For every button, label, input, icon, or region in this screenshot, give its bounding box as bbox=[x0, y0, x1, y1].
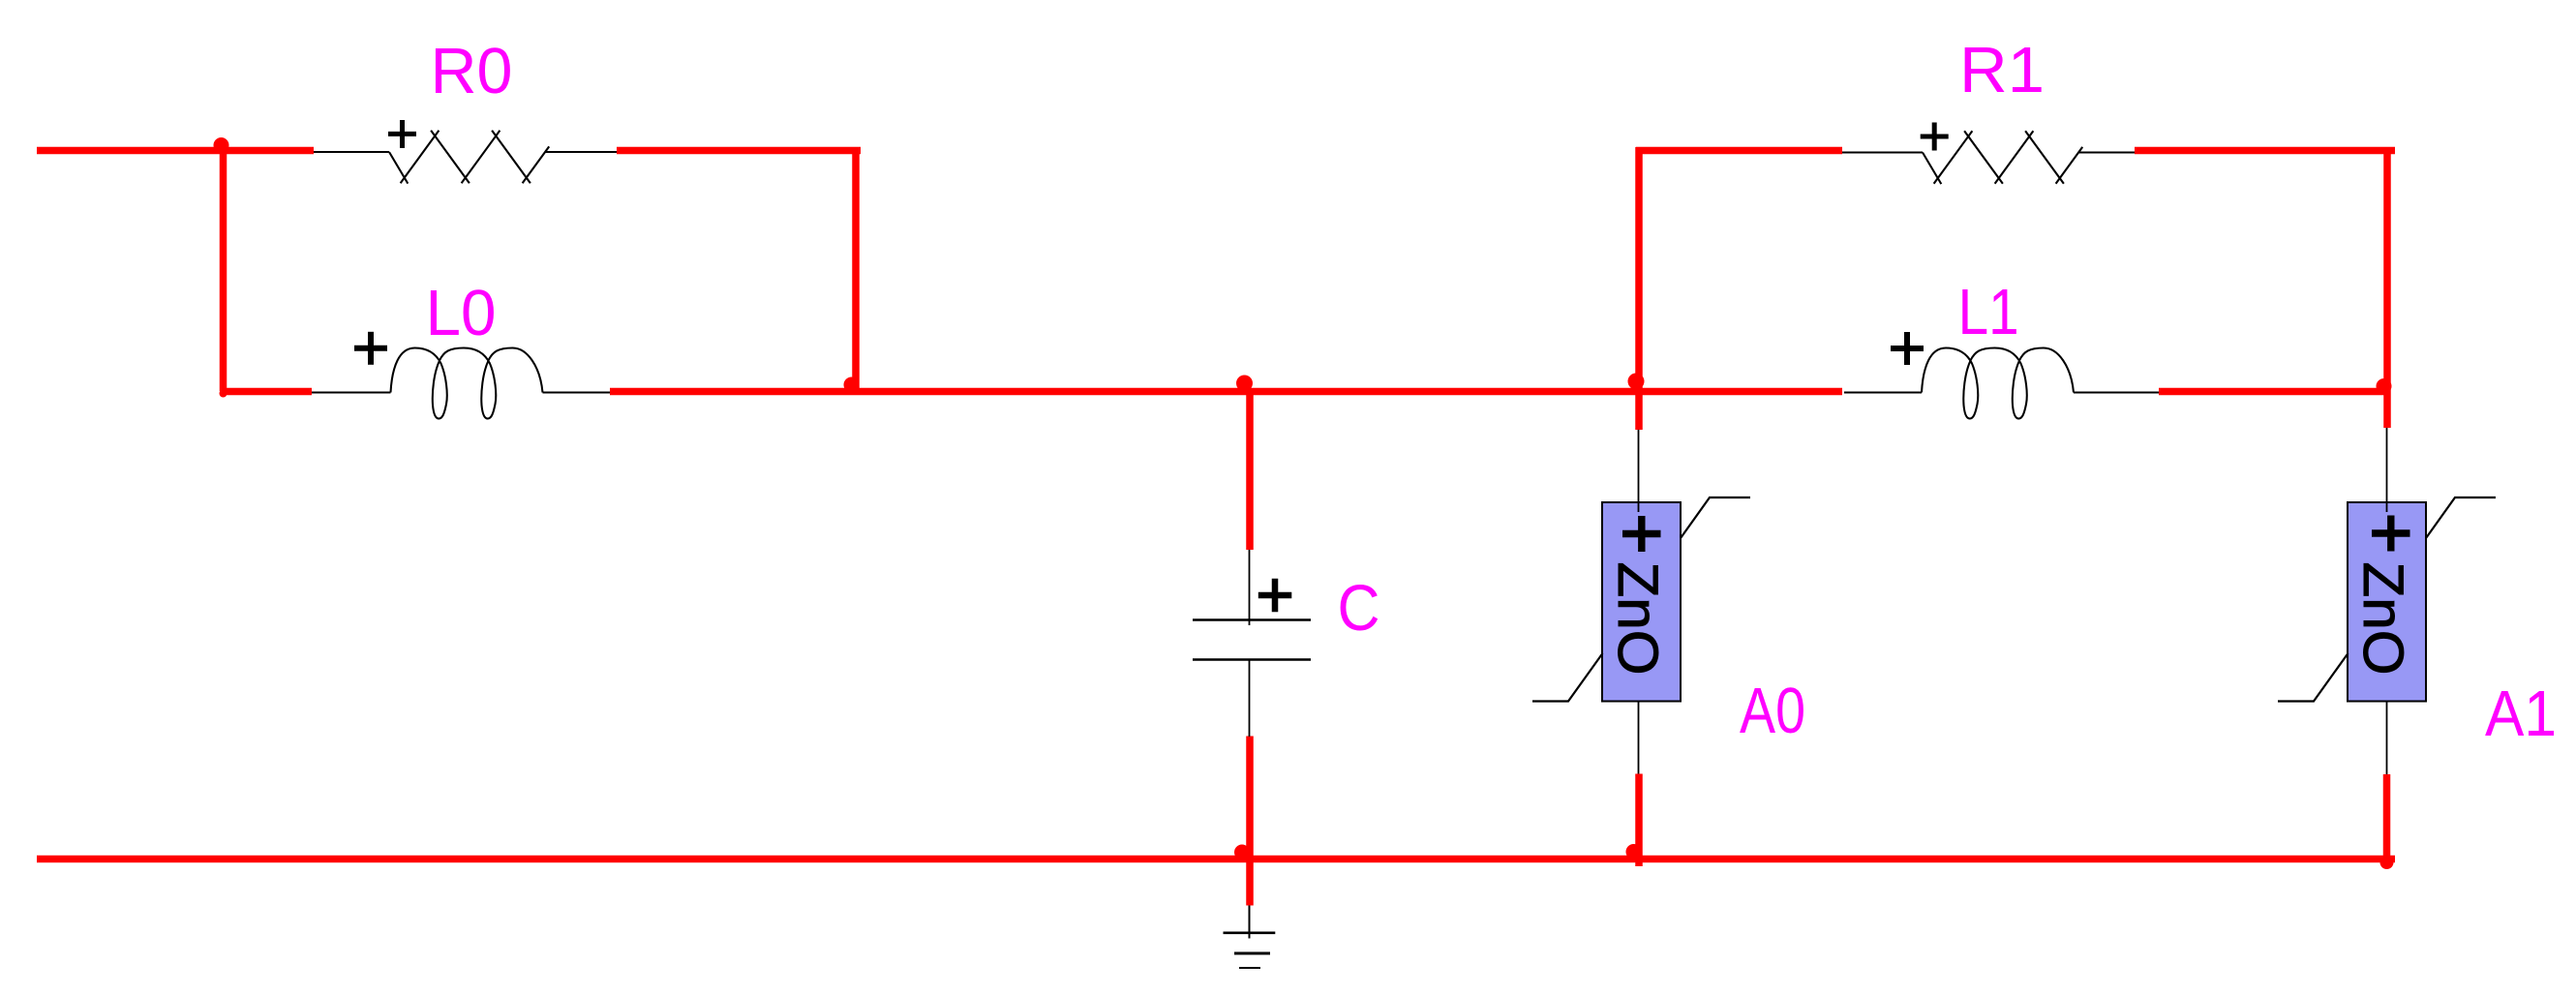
wire right-loop right vertical at x=2466 bbox=[2383, 147, 2391, 428]
wire top rail left segment B bbox=[617, 147, 861, 155]
junction dot J1 top rail x=228 bbox=[214, 137, 229, 153]
wire capacitor leg lower stub / ground stub bbox=[1246, 737, 1254, 906]
junction dot J2 mid bus x=884 bbox=[844, 377, 860, 393]
wire mid rail right stub bbox=[2159, 388, 2387, 396]
wire right-loop left vertical at x=1693 bbox=[1635, 147, 1643, 430]
wire top rail right segment A bbox=[1636, 147, 1842, 155]
varistor mark top-right of A0 bbox=[1681, 497, 1750, 538]
ground symbol bbox=[1224, 906, 1276, 969]
polarity mark + of R0 bbox=[388, 120, 416, 148]
polarity mark + of C bbox=[1258, 579, 1292, 613]
surge arrester A1 (ZnO) bbox=[2278, 428, 2496, 774]
inductor L0 bbox=[312, 348, 610, 419]
junction dot J3 mid bus x=1287 bbox=[1236, 376, 1253, 392]
resistor R0 bbox=[314, 131, 617, 184]
junction dot J5 mid bus x=2463 bbox=[2377, 378, 2392, 394]
svg-text:C: C bbox=[1338, 572, 1380, 645]
svg-text:A1: A1 bbox=[2485, 678, 2557, 750]
wire arrester A1 bottom stub bbox=[2383, 774, 2391, 867]
resistor R1 bbox=[1842, 131, 2135, 184]
varistor mark top-right of A1 bbox=[2426, 497, 2496, 538]
corner nub at left-loop bottom corner bbox=[220, 390, 227, 398]
varistor mark bottom-left of A0 bbox=[1532, 653, 1603, 702]
surge arrester A0 (ZnO) bbox=[1532, 430, 1750, 774]
wire mid-left vertical at x=884 bbox=[852, 148, 860, 391]
svg-text:L0: L0 bbox=[426, 277, 497, 349]
capacitor C bbox=[1193, 550, 1311, 737]
junction dot J8 bottom bus x=2465 bbox=[2380, 856, 2394, 869]
inductor L1 bbox=[1844, 348, 2159, 419]
wire left vertical (node N1 drop) bbox=[220, 147, 227, 391]
svg-text:ZnO: ZnO bbox=[2351, 562, 2414, 676]
junction dot J4 mid bus x=1690 bbox=[1628, 374, 1645, 390]
wire mid bus bbox=[610, 388, 1842, 396]
polarity mark + of R1 bbox=[1921, 123, 1949, 151]
varistor mark bottom-left of A1 bbox=[2278, 653, 2349, 702]
svg-text:R0: R0 bbox=[431, 35, 513, 107]
wire top rail right segment B bbox=[2135, 147, 2395, 155]
wire mid rail left stub bbox=[220, 388, 312, 396]
polarity mark + of L1 bbox=[1891, 332, 1924, 365]
svg-text:A0: A0 bbox=[1740, 675, 1805, 747]
wire bottom bus bbox=[37, 856, 2395, 863]
svg-text:R1: R1 bbox=[1959, 34, 2045, 106]
svg-text:L1: L1 bbox=[1958, 276, 2019, 348]
wire arrester A0 bottom stub bbox=[1635, 774, 1643, 867]
polarity mark + of A0 bbox=[1622, 516, 1661, 552]
junction dot J6 bottom bus x=1283 bbox=[1234, 845, 1250, 860]
svg-text:ZnO: ZnO bbox=[1606, 562, 1669, 676]
polarity mark + of L0 bbox=[354, 332, 387, 365]
wire top rail left segment A bbox=[37, 147, 314, 155]
polarity mark + of A1 bbox=[2372, 516, 2410, 552]
junction dot J7 bottom bus x=1688 bbox=[1626, 844, 1642, 859]
wire capacitor leg upper stub bbox=[1246, 391, 1254, 550]
